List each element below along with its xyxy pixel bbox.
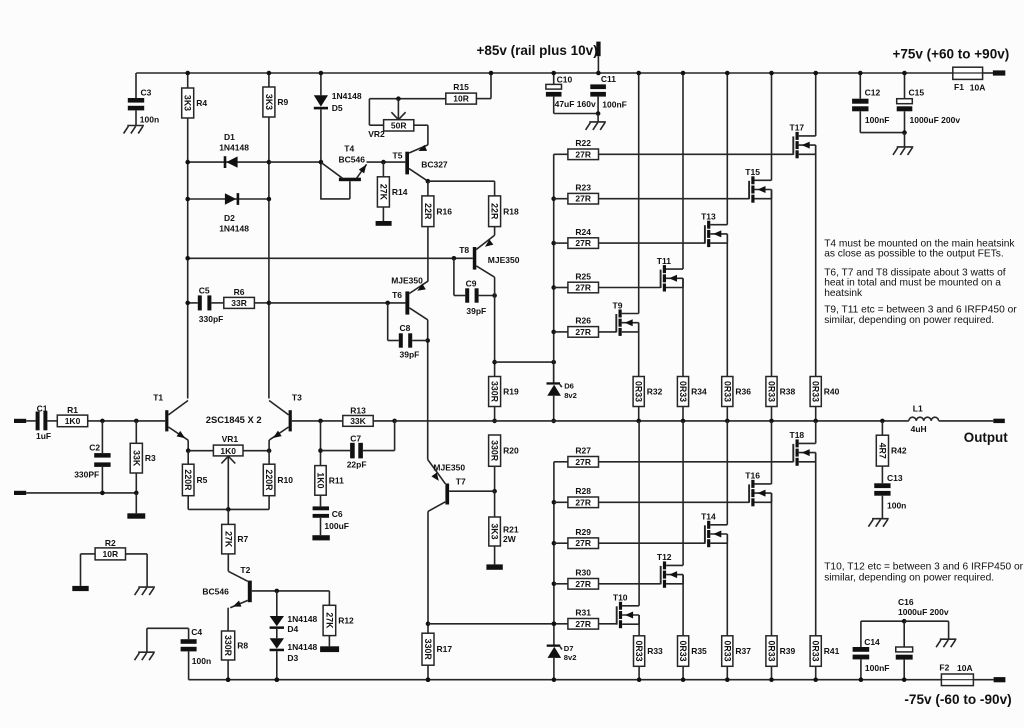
resistor R28 <box>554 486 749 508</box>
svg-text:heatsink: heatsink <box>824 288 863 299</box>
svg-text:T10, T12 etc = between 3 and 6: T10, T12 etc = between 3 and 6 IRFP450 o… <box>824 562 1023 573</box>
svg-text:0R33: 0R33 <box>767 381 777 402</box>
label Output <box>964 430 1008 445</box>
label +75v (+60 to +90v) <box>893 47 1010 62</box>
svg-text:R2: R2 <box>105 538 116 548</box>
svg-text:R26: R26 <box>575 316 591 326</box>
svg-text:10A: 10A <box>957 663 973 673</box>
svg-text:T17: T17 <box>790 123 805 133</box>
svg-text:27K: 27K <box>223 531 233 548</box>
svg-text:1K0: 1K0 <box>220 446 236 456</box>
resistor R42 <box>876 421 907 483</box>
svg-text:T3: T3 <box>292 393 302 403</box>
diode D5 <box>314 71 362 199</box>
capacitor C4 <box>147 627 211 680</box>
svg-text:27R: 27R <box>575 457 591 467</box>
wire T4 emitter to T5 base <box>367 160 406 165</box>
resistor R34 <box>677 377 707 424</box>
svg-text:27R: 27R <box>575 283 591 293</box>
svg-text:R28: R28 <box>575 486 591 496</box>
MOSFET T11 <box>657 256 683 292</box>
svg-text:1N4148: 1N4148 <box>287 642 317 652</box>
svg-text:C4: C4 <box>191 627 202 637</box>
wire T5 collector to R18 <box>428 181 495 196</box>
svg-text:10R: 10R <box>103 549 119 559</box>
svg-text:100nF: 100nF <box>865 115 890 125</box>
svg-text:MJE350: MJE350 <box>488 255 520 265</box>
resistor R13 <box>343 406 397 427</box>
svg-text:C6: C6 <box>332 509 343 519</box>
svg-text:27K: 27K <box>378 184 388 201</box>
wire drain of T13 to +rail <box>725 71 730 225</box>
svg-text:1N4148: 1N4148 <box>287 614 317 624</box>
MOSFET T15 <box>745 167 771 203</box>
resistor R40 <box>810 377 840 424</box>
resistor R18 <box>489 196 519 235</box>
svg-text:T9: T9 <box>613 300 623 310</box>
svg-text:27R: 27R <box>575 619 591 629</box>
svg-text:T6: T6 <box>392 290 402 300</box>
resistor R14 <box>377 162 407 221</box>
resistor R12 <box>323 591 354 646</box>
diode D2 <box>185 193 271 233</box>
resistor R15 <box>446 71 494 104</box>
svg-text:1N4148: 1N4148 <box>219 223 249 233</box>
svg-text:T9, T11 etc = between 3 and 6: T9, T11 etc = between 3 and 6 IRFP450 or <box>824 305 1017 316</box>
wire drain of T9 to +rail <box>636 71 641 314</box>
ground of C4 <box>135 652 155 660</box>
resistor R4 <box>182 71 208 118</box>
resistor R2 <box>81 538 148 587</box>
svg-text:D5: D5 <box>332 103 343 113</box>
resistor R19 <box>489 377 519 424</box>
MOSFET T16 <box>745 471 771 507</box>
trimmer VR1 <box>188 434 271 509</box>
note text T10 T12 IRFP450 <box>824 562 1023 584</box>
svg-text:R14: R14 <box>392 187 408 197</box>
zener diode D7 <box>547 644 577 682</box>
transistor T3 <box>269 393 302 451</box>
fuse F1 <box>953 67 986 92</box>
svg-text:0R33: 0R33 <box>678 381 688 402</box>
ground of C3 <box>124 126 144 134</box>
wire T6 base line <box>269 301 406 306</box>
label -75v (-60 to -90v) <box>904 692 1011 707</box>
wire drain of T12 to output line <box>682 421 684 566</box>
resistor R25 <box>554 271 661 293</box>
wire drain of T14 to output line <box>726 421 728 525</box>
svg-text:T14: T14 <box>701 512 716 522</box>
power rail +85v wire <box>136 72 993 74</box>
svg-text:T10: T10 <box>613 593 628 603</box>
svg-text:2SC1845 X 2: 2SC1845 X 2 <box>206 414 262 425</box>
ground of R14 <box>376 221 392 226</box>
resistor R29 <box>554 527 705 549</box>
wire T3 base line <box>292 419 343 424</box>
svg-text:220R: 220R <box>183 469 193 491</box>
svg-text:T2: T2 <box>240 565 250 575</box>
ground of C6 <box>312 535 329 540</box>
capacitor C2 <box>74 421 110 493</box>
svg-text:27R: 27R <box>575 497 591 507</box>
svg-text:220R: 220R <box>264 469 274 491</box>
transistor T7 <box>428 460 495 512</box>
svg-text:R33: R33 <box>647 646 663 656</box>
svg-text:R22: R22 <box>575 138 591 148</box>
svg-text:BC546: BC546 <box>202 587 229 597</box>
svg-text:T1: T1 <box>153 393 163 403</box>
resistor R23 <box>554 183 749 205</box>
svg-text:-75v (-60 to -90v): -75v (-60 to -90v) <box>904 692 1011 707</box>
transistor T8 <box>459 235 520 277</box>
svg-text:C2: C2 <box>89 443 100 453</box>
svg-text:3K3: 3K3 <box>183 95 193 111</box>
svg-text:R39: R39 <box>780 646 796 656</box>
resistor R7 <box>222 509 249 581</box>
svg-text:8v2: 8v2 <box>564 653 577 662</box>
MOSFET T17 <box>790 123 816 159</box>
ground of C16 <box>904 621 956 647</box>
svg-text:R34: R34 <box>691 387 707 397</box>
capacitor C1 <box>26 403 57 441</box>
svg-text:8v2: 8v2 <box>564 391 577 400</box>
svg-text:T5: T5 <box>393 150 403 160</box>
-75v terminal <box>994 677 1006 682</box>
diode D4 <box>270 591 318 634</box>
resistor R22 <box>554 138 794 160</box>
svg-text:R4: R4 <box>196 98 207 108</box>
svg-text:BC546: BC546 <box>339 154 366 164</box>
svg-text:2W: 2W <box>503 534 517 544</box>
capacitor C6 <box>313 506 349 535</box>
capacitor C14 <box>853 621 890 682</box>
svg-text:R1: R1 <box>67 405 78 415</box>
svg-text:C8: C8 <box>400 323 411 333</box>
resistor R17 <box>422 633 452 682</box>
svg-text:R27: R27 <box>575 446 591 456</box>
wire T6 collector to T7 emitter <box>425 320 430 460</box>
transistor T6 <box>391 275 428 320</box>
note text T9 T11 IRFP450 <box>824 305 1017 327</box>
svg-text:100n: 100n <box>887 501 906 511</box>
resistor R21 <box>489 491 519 564</box>
ground of R3 <box>127 493 145 519</box>
svg-text:100uF: 100uF <box>324 521 349 531</box>
svg-text:27R: 27R <box>575 579 591 589</box>
ground bar of R2 <box>72 586 88 591</box>
wire drain of T11 to +rail <box>681 71 686 269</box>
svg-text:C14: C14 <box>864 637 880 647</box>
wire source of T11 to R34 <box>682 278 684 376</box>
resistor R10 <box>263 451 293 510</box>
wire drain of T15 to +rail <box>769 71 774 181</box>
ground bar of R12 <box>320 646 339 652</box>
svg-text:R42: R42 <box>891 446 907 456</box>
svg-text:39pF: 39pF <box>400 350 420 360</box>
MOSFET T18 <box>790 430 816 466</box>
wire source of T18 to R41 <box>815 453 817 636</box>
svg-text:R7: R7 <box>237 534 248 544</box>
input terminal <box>14 419 26 423</box>
svg-text:T16: T16 <box>745 471 760 481</box>
wire source of T16 to R39 <box>771 493 773 636</box>
wire source of T10 to R33 <box>638 615 640 636</box>
resistor R38 <box>766 377 796 424</box>
resistor R24 <box>554 227 705 249</box>
svg-text:as close as possible to the ou: as close as possible to the output FETs. <box>824 249 1004 260</box>
resistor R41 <box>810 636 840 682</box>
svg-text:C1: C1 <box>37 403 48 413</box>
svg-text:R20: R20 <box>503 446 519 456</box>
wire source of T15 to R38 <box>771 190 773 377</box>
svg-text:R19: R19 <box>503 387 519 397</box>
wire source of T9 to R32 <box>638 323 640 377</box>
wire source of T14 to R37 <box>726 534 728 636</box>
svg-text:27R: 27R <box>575 327 591 337</box>
resistor R11 <box>315 421 344 507</box>
svg-text:R17: R17 <box>437 644 453 654</box>
svg-text:33K: 33K <box>131 450 141 467</box>
svg-text:10A: 10A <box>970 83 986 93</box>
svg-text:R18: R18 <box>503 206 519 216</box>
svg-text:22pF: 22pF <box>347 460 367 470</box>
svg-text:27R: 27R <box>575 149 591 159</box>
svg-text:MJE350: MJE350 <box>433 462 465 472</box>
svg-text:330R: 330R <box>223 635 233 657</box>
junction dots bottom rail <box>226 677 431 682</box>
svg-text:27R: 27R <box>575 194 591 204</box>
transistor T1 <box>153 393 190 453</box>
resistor R6 <box>211 287 271 309</box>
transistor T2 <box>202 565 329 631</box>
svg-text:100nF: 100nF <box>865 663 890 673</box>
svg-text:33K: 33K <box>350 416 366 426</box>
svg-text:C16: C16 <box>898 597 914 607</box>
resistor R26 <box>554 316 617 338</box>
wire T7 collector to R17 <box>426 511 431 633</box>
svg-text:C13: C13 <box>887 473 903 483</box>
svg-text:27R: 27R <box>575 238 591 248</box>
svg-text:VR1: VR1 <box>222 434 239 444</box>
wire output line <box>395 420 909 422</box>
trimmer VR2 <box>368 96 446 139</box>
capacitor C12 <box>852 71 904 133</box>
resistor R36 <box>722 377 752 424</box>
svg-text:D7: D7 <box>564 644 574 653</box>
svg-text:0R33: 0R33 <box>811 641 821 662</box>
svg-text:VR2: VR2 <box>368 129 385 139</box>
resistor R27 <box>554 446 793 468</box>
svg-text:C7: C7 <box>350 434 361 444</box>
resistor R30 <box>554 568 661 590</box>
svg-text:T13: T13 <box>701 212 716 222</box>
fuse F2 <box>939 662 973 685</box>
svg-text:22R: 22R <box>423 203 433 220</box>
inductor L1 <box>880 404 939 434</box>
svg-text:4uH: 4uH <box>911 424 927 434</box>
svg-text:27K: 27K <box>324 612 334 629</box>
capacitor C16 <box>861 597 949 682</box>
svg-text:R5: R5 <box>197 475 208 485</box>
output terminal <box>993 419 1005 423</box>
wire source of T12 to R35 <box>682 575 684 636</box>
zener diode D6 <box>547 362 577 423</box>
diode D1 <box>185 132 271 168</box>
svg-text:330R: 330R <box>490 440 500 462</box>
svg-text:R41: R41 <box>824 646 840 656</box>
resistor R35 <box>678 636 708 682</box>
svg-text:T4: T4 <box>344 144 354 154</box>
svg-text:C3: C3 <box>141 88 152 98</box>
wire source of T17 to R40 <box>815 145 817 376</box>
resistor R8 <box>222 631 249 682</box>
wire source of T13 to R36 <box>726 234 728 377</box>
svg-text:100n: 100n <box>140 115 159 125</box>
svg-text:R37: R37 <box>735 646 751 656</box>
svg-text:47uF 160v: 47uF 160v <box>555 99 596 109</box>
svg-text:MJE350: MJE350 <box>391 275 423 285</box>
svg-text:Output: Output <box>964 430 1008 445</box>
svg-text:0R33: 0R33 <box>722 381 732 402</box>
svg-text:R3: R3 <box>145 453 156 463</box>
svg-text:similar, depending on power re: similar, depending on power required. <box>824 573 994 584</box>
svg-text:R15: R15 <box>453 82 469 92</box>
svg-text:100n: 100n <box>192 656 211 666</box>
resistor R9 <box>263 71 289 117</box>
MOSFET T12 <box>657 552 683 588</box>
resistor R16 <box>422 181 452 226</box>
resistor R33 <box>634 636 664 682</box>
resistor R20 <box>489 435 519 494</box>
svg-text:1000uF 200v: 1000uF 200v <box>898 607 949 617</box>
svg-text:1K0: 1K0 <box>316 472 326 488</box>
capacitor C10 <box>546 71 598 114</box>
upper gate bus wire <box>551 154 556 382</box>
resistor R3 <box>130 421 156 493</box>
svg-text:D1: D1 <box>224 132 235 142</box>
svg-text:R8: R8 <box>237 641 248 651</box>
capacitor C5 <box>185 285 223 324</box>
MOSFET T9 <box>613 300 639 336</box>
svg-text:R11: R11 <box>329 475 344 485</box>
ground of R21 <box>486 564 502 569</box>
svg-text:0R33: 0R33 <box>767 641 777 662</box>
svg-text:0R33: 0R33 <box>634 641 644 662</box>
wire R4 to T1 collector <box>187 118 189 399</box>
svg-text:T11: T11 <box>657 256 671 266</box>
resistor R31 <box>568 608 617 630</box>
label +85v (rail plus 10v) <box>477 43 598 58</box>
svg-text:L1: L1 <box>913 404 923 414</box>
svg-text:D3: D3 <box>287 653 298 663</box>
svg-text:R29: R29 <box>575 527 591 537</box>
ground of C12 C15 <box>893 133 913 155</box>
wire VAS node to upper gate bus <box>495 360 556 365</box>
svg-text:R16: R16 <box>436 206 452 216</box>
capacitor C13 <box>874 473 906 519</box>
svg-text:R36: R36 <box>735 387 751 397</box>
wire drain of T10 to output line <box>638 421 640 606</box>
capacitor C7 <box>321 421 395 470</box>
svg-text:R23: R23 <box>575 183 591 193</box>
svg-text:4R7: 4R7 <box>877 443 887 459</box>
svg-text:C10: C10 <box>557 75 573 85</box>
svg-text:C15: C15 <box>909 87 925 97</box>
lower gate bus wire <box>552 462 557 645</box>
MOSFET T14 <box>701 512 727 548</box>
input ground return wire <box>14 491 139 496</box>
svg-text:R12: R12 <box>338 615 354 625</box>
svg-text:T15: T15 <box>745 167 760 177</box>
svg-text:R25: R25 <box>575 271 591 281</box>
note text T4 heatsink <box>824 238 1015 259</box>
ground of C10 C11 <box>586 114 606 130</box>
wire D1 node to T4 collector <box>269 161 321 163</box>
capacitor C8 <box>388 303 428 360</box>
resistor R37 <box>722 636 752 682</box>
wire R5 R10 bottom link <box>188 507 269 512</box>
svg-text:1uF: 1uF <box>36 431 51 441</box>
capacitor C15 <box>897 71 961 135</box>
svg-text:22R: 22R <box>490 203 500 220</box>
svg-text:R30: R30 <box>575 568 591 578</box>
svg-text:1000uF 200v: 1000uF 200v <box>910 115 961 125</box>
svg-text:R13: R13 <box>350 406 366 416</box>
svg-text:39pF: 39pF <box>466 306 486 316</box>
svg-text:D2: D2 <box>224 213 235 223</box>
svg-text:C12: C12 <box>865 88 881 98</box>
wire drain of T17 to +rail <box>813 71 818 136</box>
svg-text:T8: T8 <box>459 245 469 255</box>
svg-text:0R33: 0R33 <box>811 381 821 402</box>
svg-text:10R: 10R <box>453 94 469 104</box>
svg-text:R40: R40 <box>824 387 840 397</box>
svg-text:0R33: 0R33 <box>634 381 644 402</box>
wire L1 to output terminal <box>939 420 994 422</box>
+75v terminal <box>993 70 1005 75</box>
svg-text:100nF: 100nF <box>602 100 627 110</box>
wire lower VAS line to R31 <box>428 622 568 627</box>
svg-text:50R: 50R <box>391 121 407 131</box>
svg-text:R9: R9 <box>277 97 288 107</box>
svg-text:T12: T12 <box>657 552 672 562</box>
diode D3 <box>270 629 318 682</box>
svg-text:+85v (rail plus 10v): +85v (rail plus 10v) <box>477 43 598 58</box>
svg-text:0R33: 0R33 <box>678 641 688 662</box>
svg-text:330PF: 330PF <box>74 470 99 480</box>
svg-text:R31: R31 <box>575 608 591 618</box>
svg-text:R38: R38 <box>780 387 796 397</box>
svg-text:R6: R6 <box>234 287 245 297</box>
wire drain of T18 to output line <box>815 421 817 444</box>
capacitor C9 <box>454 258 497 316</box>
wire R9 to T3 collector <box>268 117 270 399</box>
svg-text:D6: D6 <box>564 382 574 391</box>
label 2SC1845 X 2 <box>206 414 262 425</box>
ground of C13 <box>868 519 888 527</box>
transistor T4 <box>320 144 366 199</box>
wire drain of T16 to output line <box>771 421 773 484</box>
svg-text:+75v (+60 to +90v): +75v (+60 to +90v) <box>893 47 1010 62</box>
power rail -75v wire <box>189 679 994 681</box>
svg-text:330R: 330R <box>490 381 500 403</box>
svg-text:27R: 27R <box>575 538 591 548</box>
svg-text:D4: D4 <box>287 624 298 634</box>
svg-text:similar, depending on power re: similar, depending on power required. <box>824 315 994 326</box>
svg-text:BC327: BC327 <box>421 160 448 170</box>
svg-text:1N4148: 1N4148 <box>332 91 362 101</box>
svg-text:C9: C9 <box>466 279 477 289</box>
